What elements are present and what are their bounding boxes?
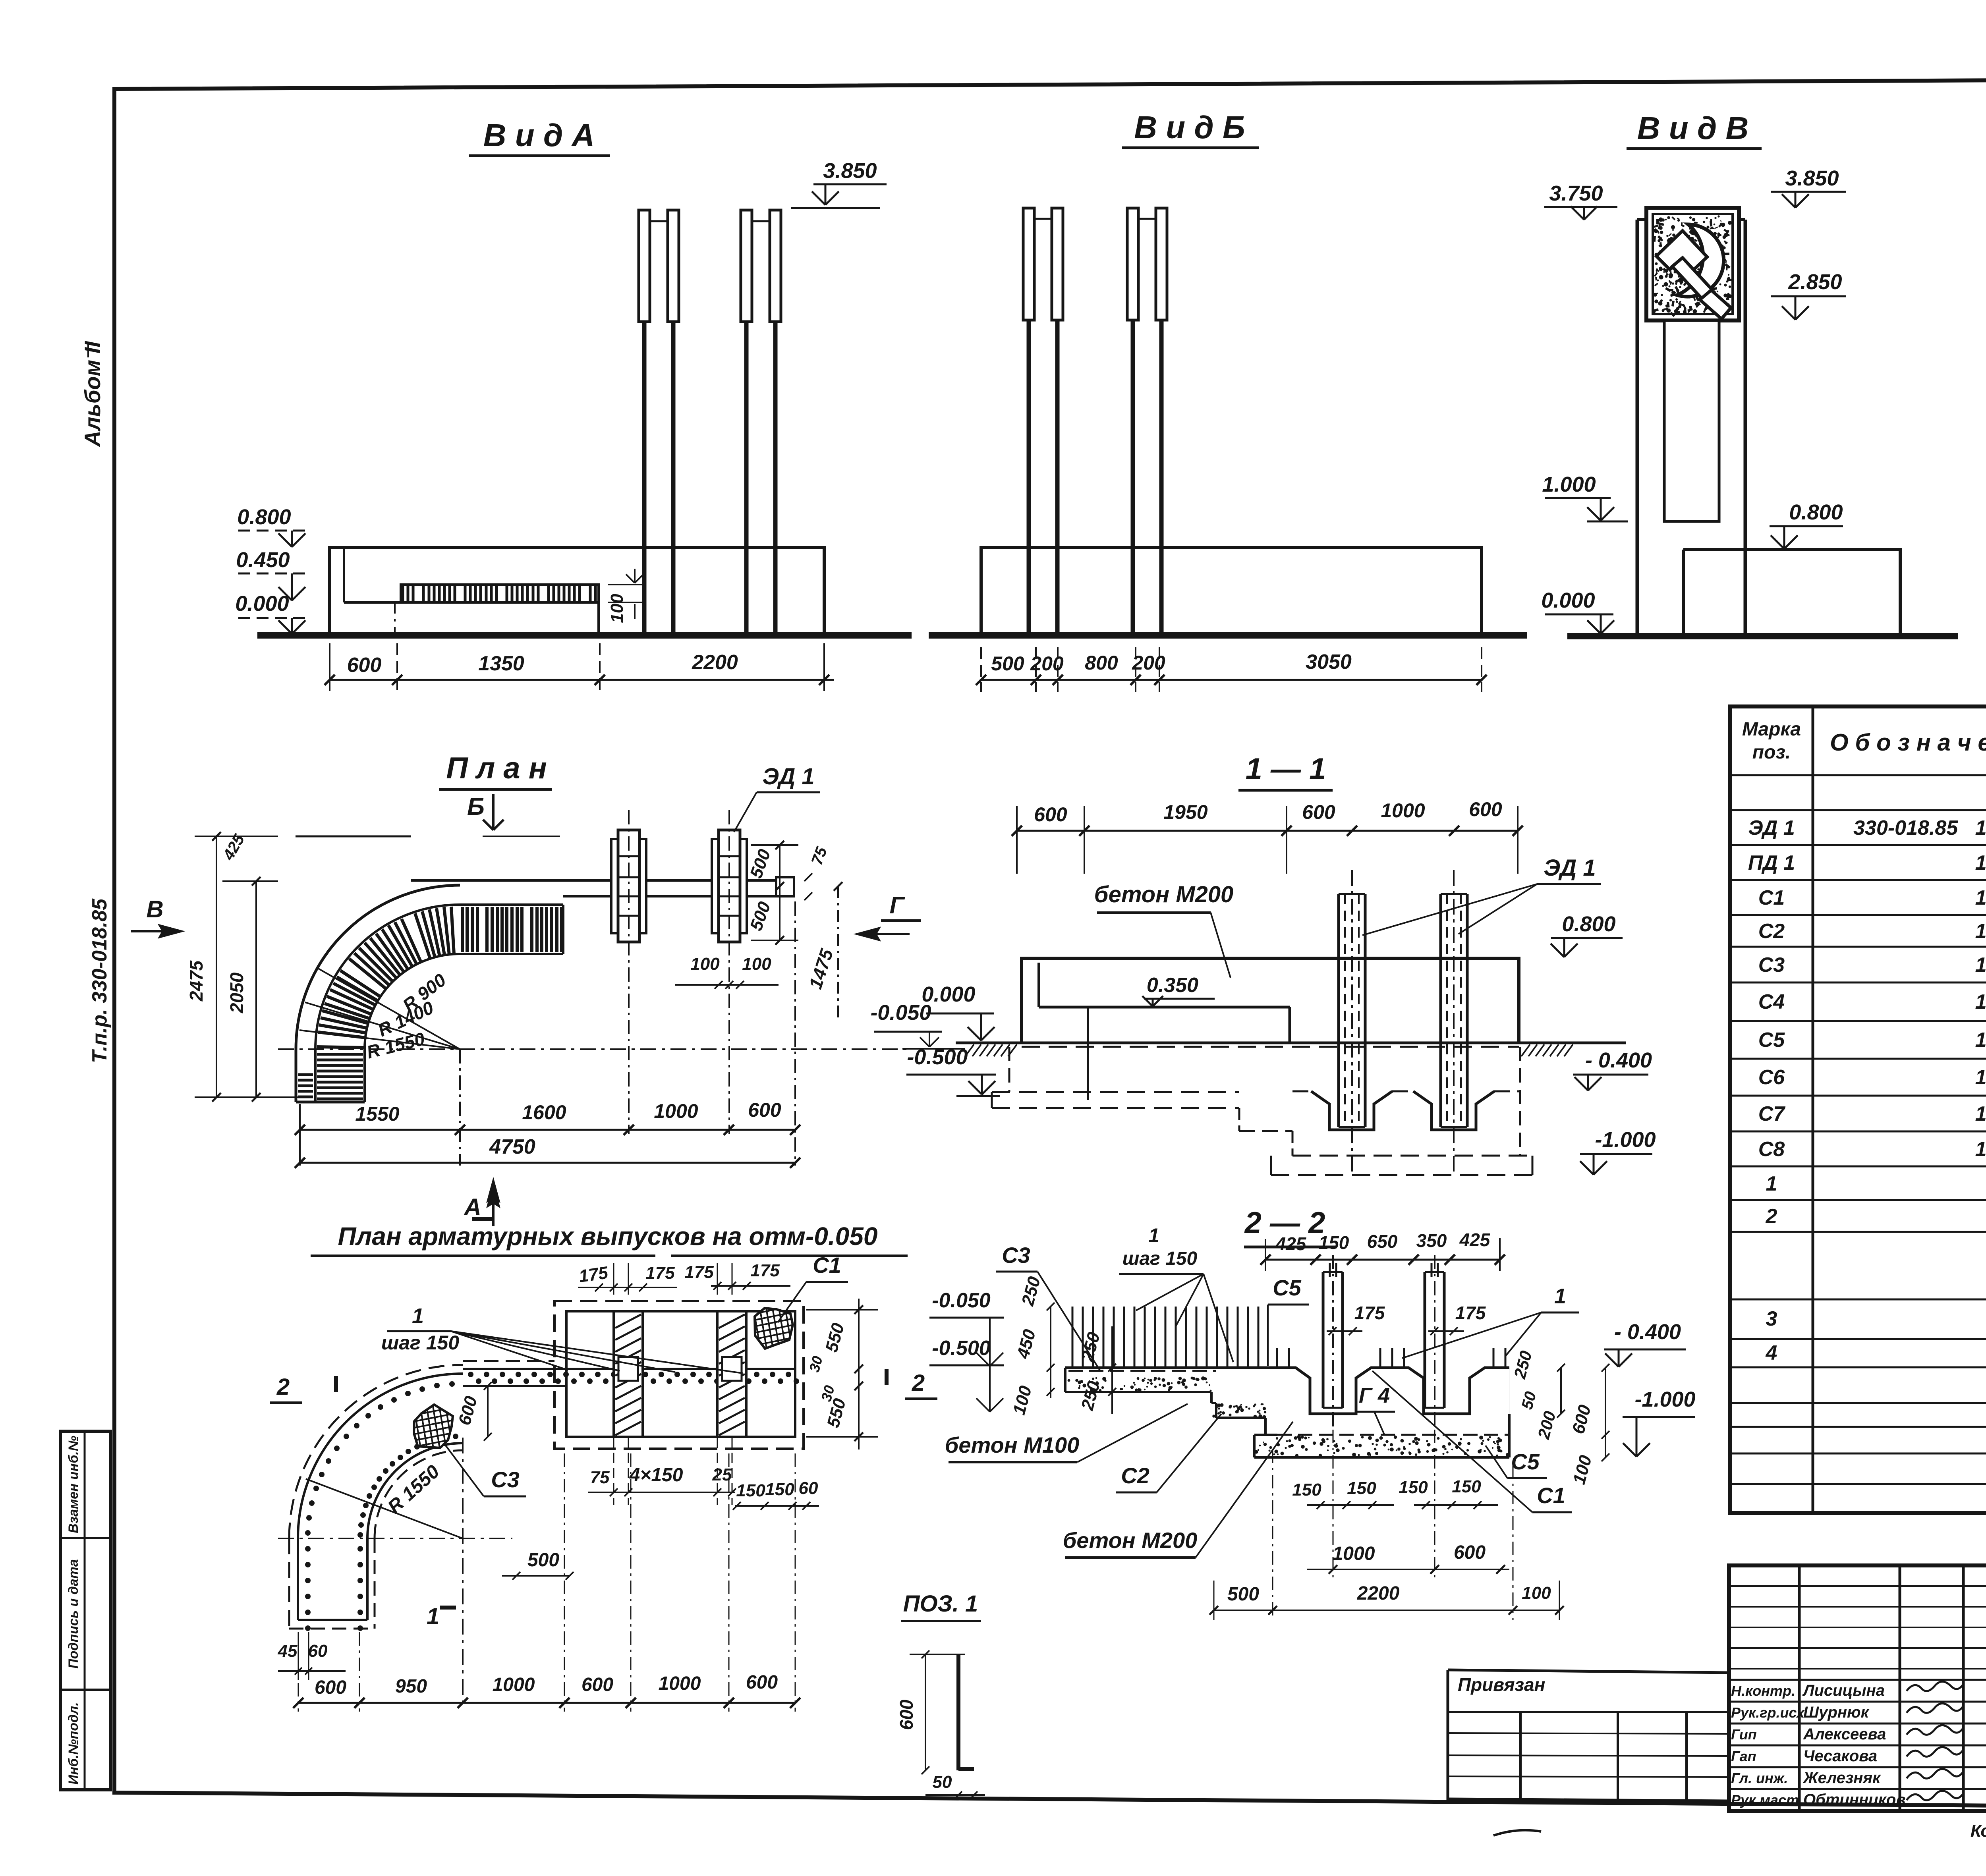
- svg-text:1600: 1600: [522, 1101, 566, 1123]
- svg-text:13.02.00: 13.02.00: [1975, 920, 1986, 943]
- svg-text:ПОЗ. 1: ПОЗ. 1: [903, 1591, 978, 1617]
- svg-text:0.800: 0.800: [1789, 500, 1843, 524]
- svg-text:650: 650: [1367, 1231, 1398, 1252]
- svg-text:150: 150: [765, 1480, 794, 1499]
- svg-text:425: 425: [1275, 1233, 1307, 1254]
- svg-text:П л а н: П л а н: [446, 751, 547, 785]
- svg-text:Алексеева: Алексеева: [1803, 1725, 1886, 1743]
- Rebar plan dashed outer arc: [289, 1365, 463, 1538]
- svg-text:Обтинников: Обтинников: [1803, 1791, 1906, 1808]
- title block outer: [1729, 1565, 1986, 1811]
- svg-text:С5: С5: [1511, 1449, 1540, 1474]
- svg-text:14.40.00: 14.40.00: [1975, 851, 1986, 874]
- svg-text:2: 2: [912, 1370, 925, 1396]
- svg-text:150: 150: [1292, 1480, 1321, 1500]
- Rebar plan outer arc: [298, 1374, 463, 1538]
- Rebar plan inner dashed arc: [375, 1450, 463, 1538]
- svg-text:Марка: Марка: [1742, 719, 1801, 740]
- View A decorative element post pair 1: [639, 210, 650, 322]
- svg-text:500: 500: [991, 652, 1024, 675]
- svg-text:ЭД 1: ЭД 1: [1748, 816, 1795, 840]
- svg-text:200: 200: [1030, 652, 1064, 675]
- svg-text:-1.000: -1.000: [1634, 1388, 1695, 1411]
- svg-text:С5: С5: [1758, 1029, 1785, 1052]
- svg-text:100: 100: [690, 954, 720, 974]
- Section 2-2 bottom slab: [1253, 1435, 1256, 1457]
- svg-text:13.06.00: 13.06.00: [1975, 1066, 1986, 1089]
- svg-text:150: 150: [1347, 1478, 1376, 1498]
- left margin bottom strip: [60, 1431, 110, 1790]
- Rebar plan foundation rect dashed: [554, 1301, 804, 1449]
- Rebar plan arc rebar dots: [453, 1434, 458, 1439]
- svg-text:175: 175: [750, 1261, 780, 1280]
- View B bottom dimensions: [981, 679, 1482, 681]
- svg-text:4×150: 4×150: [629, 1465, 683, 1486]
- Rebar plan mesh symbol C3: [414, 1405, 453, 1448]
- svg-text:С4: С4: [1758, 990, 1785, 1013]
- svg-text:Гап: Гап: [1731, 1748, 1756, 1764]
- View A dash-dot leg line: [394, 602, 396, 635]
- svg-text:1950: 1950: [1163, 801, 1207, 823]
- svg-text:175: 175: [645, 1263, 675, 1283]
- svg-text:Железняк: Железняк: [1802, 1769, 1881, 1787]
- View A decorative element post pair 2: [741, 210, 752, 322]
- Section 1-1 body outline: [1022, 958, 1519, 1043]
- svg-text:ЭД 1: ЭД 1: [762, 764, 814, 789]
- View A platform outline: [330, 548, 824, 635]
- svg-text:13.03.00: 13.03.00: [1975, 953, 1986, 977]
- svg-text:шаг 150: шаг 150: [1122, 1248, 1198, 1269]
- svg-text:1000: 1000: [1333, 1543, 1375, 1564]
- View V pedestal: [1745, 550, 1900, 635]
- svg-text:- 0.400: - 0.400: [1585, 1048, 1652, 1072]
- Rebar plan hatched strip 2: [717, 1311, 746, 1437]
- svg-text:600: 600: [347, 654, 382, 677]
- svg-text:330-018.85 14.30.00: 330-018.85 14.30.00: [1853, 816, 1986, 840]
- View A bench step: [343, 548, 345, 602]
- svg-text:С3: С3: [1002, 1243, 1030, 1268]
- parts table outer box: [1730, 706, 1986, 1513]
- svg-text:С6: С6: [1758, 1066, 1785, 1089]
- Section 1-1 post 1: [1337, 894, 1340, 1127]
- svg-text:2.850: 2.850: [1788, 270, 1842, 294]
- Section 1-1 ground line: [956, 1042, 1626, 1044]
- svg-text:3050: 3050: [1306, 650, 1352, 674]
- Rebar plan marker A up arrow: [488, 1187, 498, 1226]
- Section 1-1 post pits: [1311, 1091, 1392, 1130]
- Plan left vertical dims: [216, 836, 217, 1097]
- svg-text:600: 600: [1469, 798, 1502, 820]
- svg-text:100: 100: [1522, 1583, 1551, 1603]
- Rebar plan dim 500: [502, 1575, 570, 1577]
- svg-text:200: 200: [1132, 652, 1165, 674]
- svg-text:Подпись и дата: Подпись и дата: [66, 1559, 81, 1669]
- svg-text:С3: С3: [491, 1467, 520, 1492]
- svg-text:600: 600: [746, 1672, 778, 1693]
- svg-text:Лисицына: Лисицына: [1802, 1682, 1885, 1699]
- svg-text:0.800: 0.800: [1562, 912, 1615, 936]
- Section 2-2 dims 1000 600: [1307, 1569, 1509, 1570]
- View V ground: [1567, 633, 1958, 639]
- svg-text:175: 175: [1455, 1303, 1486, 1323]
- Plan curved bench outer arc R1550: [296, 885, 460, 1049]
- svg-text:1000: 1000: [659, 1673, 701, 1694]
- svg-text:-0.050: -0.050: [932, 1289, 991, 1312]
- svg-text:0.350: 0.350: [1147, 974, 1198, 997]
- svg-text:60: 60: [308, 1641, 328, 1661]
- parts table row lines: [1730, 774, 1986, 776]
- svg-text:-0.050: -0.050: [870, 1001, 931, 1025]
- Plan post plate assembly 2: [712, 839, 747, 933]
- svg-text:С1: С1: [1537, 1483, 1565, 1508]
- svg-text:4: 4: [1766, 1341, 1777, 1365]
- Plan curved bench inner arc R900: [365, 954, 460, 1049]
- svg-text:100: 100: [607, 594, 627, 623]
- Rebar plan bottom dims row: [298, 1702, 795, 1704]
- svg-text:Привязан: Привязан: [1458, 1674, 1545, 1695]
- svg-text:4750: 4750: [489, 1135, 535, 1158]
- svg-text:бетон М200: бетон М200: [1094, 882, 1234, 907]
- svg-text:150: 150: [1319, 1232, 1349, 1253]
- Rebar plan inner arc: [367, 1443, 463, 1538]
- svg-text:Н.контр.: Н.контр.: [1731, 1683, 1795, 1699]
- svg-text:500: 500: [1227, 1584, 1259, 1605]
- svg-text:План арматурных выпусков на от: План арматурных выпусков на отм-0.050: [338, 1222, 878, 1251]
- Section 2-2 top dims: [1265, 1259, 1500, 1261]
- Plan bench radial hatch: [451, 907, 454, 954]
- View V recess slot: [1664, 320, 1719, 521]
- svg-text:С2: С2: [1758, 920, 1785, 943]
- Plan dim 500 500 column: [779, 845, 780, 940]
- Rebar plan wall lines: [463, 1368, 795, 1370]
- svg-text:3.850: 3.850: [823, 159, 877, 183]
- Section 2-2 central rebar ticks: [1276, 1348, 1278, 1368]
- parts table column lines: [1812, 706, 1814, 1513]
- svg-text:Рук.маст.: Рук.маст.: [1731, 1792, 1803, 1808]
- svg-text:350: 350: [1416, 1230, 1447, 1251]
- Rebar plan radius R1550 leader: [306, 1479, 463, 1538]
- View V emblem plate: [1646, 208, 1739, 320]
- View B ground line: [929, 632, 1527, 639]
- svg-text:45: 45: [278, 1641, 298, 1661]
- svg-text:1: 1: [412, 1304, 424, 1328]
- svg-text:75: 75: [590, 1468, 610, 1487]
- Pos.1 dim 600: [925, 1654, 926, 1770]
- Rebar plan centrelines: [278, 1538, 512, 1539]
- svg-text:2200: 2200: [1357, 1583, 1400, 1604]
- svg-text:С8: С8: [1758, 1138, 1785, 1161]
- svg-text:2: 2: [276, 1374, 290, 1400]
- svg-text:бетон М200: бетон М200: [1063, 1528, 1198, 1553]
- Rebar plan wall rebar dots: [468, 1372, 473, 1377]
- Rebar plan dims 75 4x150 25: [588, 1492, 735, 1493]
- svg-text:600: 600: [1302, 801, 1335, 823]
- Plan post plate assembly 1: [611, 839, 646, 933]
- svg-text:2475: 2475: [186, 960, 207, 1002]
- svg-text:0.450: 0.450: [236, 548, 290, 572]
- svg-text:1000: 1000: [654, 1100, 698, 1122]
- svg-text:13.05.00: 13.05.00: [1975, 1029, 1986, 1052]
- svg-text:С1: С1: [813, 1253, 841, 1278]
- Rebar plan mesh symbol C1: [755, 1308, 793, 1349]
- Section 2-2 step down mid: [1210, 1392, 1213, 1403]
- Section 2-2 left slab stipple: [1133, 1382, 1135, 1384]
- svg-text:150: 150: [1399, 1478, 1428, 1497]
- svg-text:поз.: поз.: [1752, 742, 1791, 763]
- View B post pair 2: [1127, 208, 1138, 320]
- svg-text:600: 600: [748, 1099, 781, 1121]
- Plan wall band: [411, 879, 776, 882]
- svg-text:1550: 1550: [355, 1103, 399, 1125]
- svg-text:Инб.№подл.: Инб.№подл.: [66, 1702, 81, 1785]
- svg-text:ПД 1: ПД 1: [1748, 851, 1795, 874]
- svg-text:О б о з н а ч е н и е: О б о з н а ч е н и е: [1830, 729, 1986, 756]
- svg-text:2050: 2050: [226, 972, 247, 1013]
- svg-text:1: 1: [1766, 1172, 1777, 1195]
- svg-text:175: 175: [1354, 1303, 1385, 1323]
- svg-text:1350: 1350: [478, 652, 524, 675]
- svg-text:50: 50: [933, 1772, 952, 1792]
- svg-text:1: 1: [1148, 1224, 1159, 1247]
- svg-text:150: 150: [1452, 1477, 1481, 1496]
- Plan radius leaders: [317, 968, 460, 1049]
- svg-text:Гип: Гип: [1731, 1726, 1757, 1743]
- Section 2-2 dims 500 2200 100: [1214, 1610, 1559, 1611]
- svg-text:425: 425: [1459, 1229, 1491, 1250]
- title block sig rows: [1729, 1679, 1986, 1681]
- svg-text:13.07.00: 13.07.00: [1975, 1102, 1986, 1125]
- svg-text:1.000: 1.000: [1542, 473, 1596, 496]
- title block verticals: [1798, 1565, 1801, 1811]
- title block upper small rows: [1729, 1585, 1986, 1587]
- Section 2-2 posts: [1322, 1272, 1325, 1408]
- svg-text:Гл. инж.: Гл. инж.: [1731, 1770, 1788, 1786]
- svg-text:С2: С2: [1121, 1463, 1149, 1488]
- svg-text:Г 4: Г 4: [1359, 1384, 1390, 1407]
- svg-text:-0.500: -0.500: [932, 1337, 991, 1360]
- Section 1-1 post 2: [1439, 894, 1442, 1127]
- svg-text:1000: 1000: [1381, 799, 1425, 822]
- Plan curved bench mid arc R1400: [315, 905, 460, 1049]
- Section 1-1 top dims: [1017, 830, 1518, 832]
- svg-text:3.750: 3.750: [1549, 181, 1603, 205]
- Plan wall/arc centreline: [278, 1048, 910, 1050]
- Section 1-1 buried outline dashed: [1022, 1046, 1519, 1048]
- Section 2-2 left slab body: [1064, 1368, 1066, 1392]
- View V column: [1637, 218, 1745, 221]
- svg-text:800: 800: [1085, 652, 1118, 674]
- svg-text:С7: С7: [1758, 1102, 1786, 1125]
- svg-text:- 0.400: - 0.400: [1614, 1320, 1681, 1344]
- svg-text:С5: С5: [1273, 1275, 1301, 1300]
- Rebar plan dim 600: [487, 1386, 489, 1437]
- svg-text:С1: С1: [1758, 886, 1785, 909]
- svg-text:Шурнюк: Шурнюк: [1803, 1704, 1870, 1721]
- svg-text:150: 150: [736, 1481, 765, 1500]
- svg-text:-1.000: -1.000: [1595, 1128, 1656, 1152]
- Plan bottom dims: [300, 1129, 795, 1131]
- svg-text:А: А: [463, 1194, 481, 1220]
- svg-text:3.850: 3.850: [1785, 166, 1839, 190]
- svg-text:1: 1: [427, 1604, 439, 1629]
- svg-text:Альбом II: Альбом II: [80, 341, 105, 448]
- Rebar plan hatched strip 1: [614, 1311, 643, 1437]
- svg-text:Б: Б: [467, 793, 485, 820]
- svg-text:600: 600: [582, 1674, 613, 1695]
- Pos.1 bar: [956, 1654, 960, 1770]
- svg-text:600: 600: [315, 1677, 346, 1698]
- privyazan box: [1448, 1670, 1729, 1673]
- svg-text:2: 2: [1766, 1205, 1777, 1228]
- svg-text:0.000: 0.000: [235, 592, 289, 616]
- svg-text:950: 950: [395, 1676, 427, 1697]
- svg-text:Копировал: Копировал: [1971, 1821, 1986, 1841]
- Plan bench inner edge lines straight part: [460, 903, 563, 906]
- svg-text:шаг 150: шаг 150: [381, 1332, 459, 1354]
- svg-text:В и д А: В и д А: [483, 118, 595, 153]
- svg-text:600: 600: [896, 1699, 917, 1730]
- svg-text:В и д Б: В и д Б: [1134, 110, 1245, 145]
- View A bench slats: [401, 585, 599, 602]
- Rebar plan section1 markers: [472, 1217, 493, 1221]
- svg-text:60: 60: [799, 1478, 818, 1498]
- svg-text:500: 500: [527, 1550, 559, 1571]
- svg-text:Т.п.р. 330-018.85: Т.п.р. 330-018.85: [88, 898, 111, 1063]
- svg-text:Рук.гр.исх: Рук.гр.исх: [1731, 1704, 1805, 1721]
- svg-text:13.04.00: 13.04.00: [1975, 990, 1986, 1013]
- svg-text:175: 175: [578, 1263, 609, 1286]
- svg-text:13.01.00: 13.01.00: [1975, 886, 1986, 909]
- svg-text:Чесакова: Чесакова: [1803, 1747, 1877, 1765]
- Rebar plan dashed wall offset: [463, 1360, 554, 1362]
- svg-text:-0.500: -0.500: [907, 1045, 968, 1069]
- svg-text:0.800: 0.800: [237, 505, 291, 529]
- Section 2-2 post centrelines down: [1333, 1430, 1334, 1579]
- Plan straight bench hatch: [461, 907, 464, 952]
- svg-text:13.08.00: 13.08.00: [1975, 1138, 1986, 1161]
- Section 2-2 central block top with pits: [1265, 1368, 1509, 1414]
- svg-text:Г: Г: [890, 892, 906, 919]
- svg-text:1: 1: [1554, 1284, 1566, 1308]
- svg-text:600: 600: [1454, 1542, 1486, 1563]
- View A ground line: [257, 632, 912, 639]
- svg-text:175: 175: [684, 1262, 714, 1282]
- Section 2-2 left slab with rebar ticks: [1072, 1307, 1074, 1368]
- svg-text:2200: 2200: [692, 651, 738, 674]
- svg-text:С3: С3: [1758, 953, 1785, 977]
- svg-text:бетон М100: бетон М100: [945, 1432, 1080, 1457]
- Rebar plan tail: [297, 1538, 299, 1620]
- svg-text:1000: 1000: [493, 1674, 535, 1695]
- svg-text:В: В: [146, 896, 163, 923]
- svg-text:В и д В: В и д В: [1637, 110, 1749, 146]
- Rebar plan dims right 550 30 30 550: [858, 1299, 860, 1449]
- Rebar plan foundation rect solid: [566, 1311, 795, 1437]
- svg-text:3: 3: [1766, 1307, 1777, 1330]
- svg-text:ЭД 1: ЭД 1: [1544, 855, 1596, 881]
- svg-text:100: 100: [742, 954, 771, 974]
- View B post pair 1: [1023, 208, 1034, 320]
- svg-text:1 — 1: 1 — 1: [1246, 752, 1326, 786]
- View A bottom dimensions: [330, 679, 834, 681]
- Plan bench vertical tail: [295, 1049, 298, 1102]
- Rebar plan dims 150 150 60: [735, 1505, 819, 1507]
- View B platform outline: [981, 548, 1482, 634]
- svg-text:0.000: 0.000: [1541, 589, 1595, 612]
- Plan dim 1475: [837, 886, 839, 1021]
- Section 1-1 ground hatch left: [965, 1044, 974, 1056]
- svg-text:Взамен инб.№: Взамен инб.№: [66, 1436, 81, 1533]
- svg-text:600: 600: [1034, 803, 1067, 826]
- Section 2-2 bottom dims 150x4: [1307, 1504, 1394, 1506]
